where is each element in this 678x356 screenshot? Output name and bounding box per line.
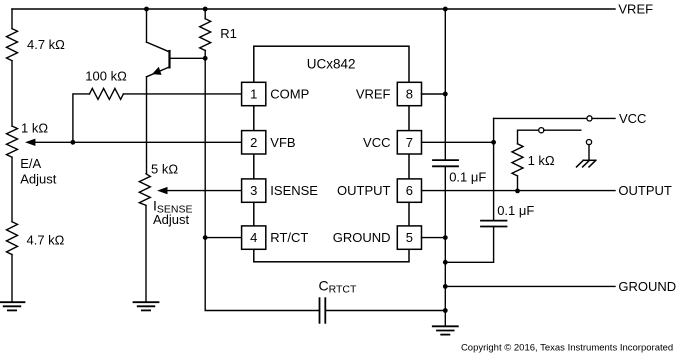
- switch pole circle: [539, 128, 544, 133]
- wire COMP to pin 1: [123, 93, 241, 95]
- capacitor CRTCT: [320, 298, 326, 323]
- ground (main rail): [433, 326, 458, 334]
- wire pin 5 to ground rail: [422, 237, 446, 239]
- wire CRTCT to ground rail: [325, 310, 445, 312]
- svg-text:3: 3: [250, 183, 257, 198]
- ground (left branch): [0, 302, 25, 310]
- resistor 1k (load): [512, 144, 523, 176]
- svg-text:4: 4: [250, 230, 257, 245]
- wire emitter down to 5k pot: [146, 77, 148, 174]
- wire VFB to pin 2: [35, 141, 242, 143]
- wire rail A below cap A to ground: [444, 166, 446, 310]
- pin 2 box: [242, 131, 266, 154]
- capacitor 0.1uF (VREF bypass): [433, 160, 458, 166]
- wiper arrow 1k pot: [25, 139, 35, 146]
- node top rail / VREF rail: [443, 7, 448, 12]
- pin 8 box: [397, 82, 421, 105]
- wire: [11, 157, 13, 222]
- wire RT/CT node down to CRTCT: [205, 238, 319, 311]
- svg-text:COMP: COMP: [270, 87, 309, 102]
- node pin7 / VCC rail: [491, 140, 496, 145]
- potentiometer 5k ISENSE Adjust: [139, 174, 150, 206]
- pin 1 box: [242, 82, 266, 105]
- wire pin 6 OUTPUT line: [422, 190, 616, 192]
- svg-text:OUTPUT: OUTPUT: [337, 183, 391, 198]
- svg-text:VFB: VFB: [270, 135, 295, 150]
- wire transistor collector lead: [146, 9, 148, 42]
- wire R1 top lead: [204, 9, 206, 19]
- svg-text:1 kΩ: 1 kΩ: [528, 153, 555, 168]
- svg-text:1: 1: [250, 87, 257, 102]
- wire VCC terminal stub: [592, 117, 615, 119]
- wire rail A to ground symbol: [444, 311, 446, 327]
- svg-text:6: 6: [406, 183, 413, 198]
- svg-text:VREF: VREF: [618, 2, 653, 17]
- pin 7 box: [397, 131, 421, 154]
- node base / R1: [203, 56, 208, 61]
- svg-text:4.7 kΩ: 4.7 kΩ: [27, 232, 65, 247]
- svg-text:UCx842: UCx842: [307, 57, 356, 72]
- wire RT/CT to pin 4: [205, 237, 241, 239]
- wire: [11, 61, 13, 126]
- wire: [11, 255, 13, 303]
- switch blade wire: [544, 129, 581, 131]
- node top rail / collector: [144, 7, 149, 12]
- node CRTCT wire / rail A: [443, 308, 448, 313]
- svg-text:R1: R1: [220, 26, 237, 41]
- svg-text:GROUND: GROUND: [333, 230, 391, 245]
- pin 3 box: [242, 179, 266, 202]
- wire VFB junction up to 100k: [73, 94, 90, 142]
- resistor 100k: [90, 88, 124, 99]
- wire VREF top rail: [12, 8, 615, 10]
- pin 6 box: [397, 179, 421, 202]
- svg-text:GROUND: GROUND: [618, 279, 676, 294]
- wire cap B bottom return: [445, 227, 493, 263]
- potentiometer 1k E/A Adjust: [7, 126, 18, 157]
- svg-text:Copyright © 2016, Texas Instru: Copyright © 2016, Texas Instruments Inco…: [461, 343, 673, 354]
- wire: [145, 205, 147, 302]
- node 1k / OUTPUT: [515, 189, 520, 194]
- svg-text:ISENSE: ISENSE: [270, 183, 318, 198]
- node pin5 / rail A: [443, 235, 448, 240]
- svg-text:Adjust: Adjust: [20, 172, 57, 187]
- wire switch arm from 1k top: [518, 130, 539, 144]
- wire ISENSE to pin 3: [167, 190, 242, 192]
- svg-text:100 kΩ: 100 kΩ: [85, 69, 127, 84]
- svg-text:2: 2: [250, 135, 257, 150]
- node pin8 / rail A: [443, 92, 448, 97]
- svg-text:0.1 μF: 0.1 μF: [497, 203, 534, 218]
- node RT/CT junction: [203, 235, 208, 240]
- wire pin 7 to VCC rail: [422, 141, 494, 143]
- svg-text:RT/CT: RT/CT: [270, 230, 308, 245]
- wire R1 bottom lead: [204, 51, 206, 59]
- svg-text:5 kΩ: 5 kΩ: [151, 162, 178, 177]
- svg-text:0.1 μF: 0.1 μF: [449, 170, 486, 185]
- wire base node to RT/CT vertical: [204, 58, 206, 237]
- wire left branch top: [11, 9, 13, 29]
- capacitor 0.1uF (VCC bypass): [481, 221, 507, 227]
- pin 4 box: [242, 226, 266, 249]
- chassis ground: [577, 160, 596, 167]
- svg-text:E/A: E/A: [20, 156, 41, 171]
- wire VCC rail: [493, 118, 495, 220]
- wiper arrow 5k pot: [157, 187, 167, 194]
- svg-text:1 kΩ: 1 kΩ: [21, 121, 48, 136]
- svg-text:5: 5: [406, 230, 413, 245]
- ground (5k pot branch): [134, 302, 159, 310]
- wire GROUND line: [445, 285, 615, 287]
- node VFB junction: [71, 140, 76, 145]
- IC U1 body UCx842: [254, 46, 409, 262]
- wire base: [170, 57, 206, 59]
- resistor 4.7k (upper): [7, 29, 18, 61]
- resistor R1: [200, 19, 211, 51]
- svg-text:7: 7: [406, 135, 413, 150]
- svg-text:8: 8: [406, 87, 413, 102]
- svg-text:OUTPUT: OUTPUT: [618, 183, 672, 198]
- node cap B return / rail A: [443, 260, 448, 265]
- node top rail / R1: [203, 7, 208, 12]
- svg-text:4.7 kΩ: 4.7 kΩ: [27, 37, 65, 52]
- wire VREF rail down to cap A: [444, 9, 446, 160]
- terminal circle VCC: [587, 116, 592, 121]
- wire pin 8 to VREF rail: [422, 93, 446, 95]
- wire VCC line to terminal: [494, 117, 587, 119]
- transistor Q1 (collector/base/emitter): [147, 42, 170, 52]
- svg-text:VCC: VCC: [619, 111, 646, 126]
- node GROUND line / rail A: [443, 284, 448, 289]
- resistor 4.7k (lower): [7, 222, 18, 255]
- pin 5 box: [397, 226, 421, 249]
- wire 1k bottom to OUTPUT: [517, 176, 519, 191]
- svg-text:VCC: VCC: [363, 135, 390, 150]
- svg-text:Adjust: Adjust: [153, 212, 190, 227]
- svg-text:VREF: VREF: [356, 87, 391, 102]
- terminal circle to chassis ground: [586, 140, 591, 145]
- wire: [588, 145, 590, 161]
